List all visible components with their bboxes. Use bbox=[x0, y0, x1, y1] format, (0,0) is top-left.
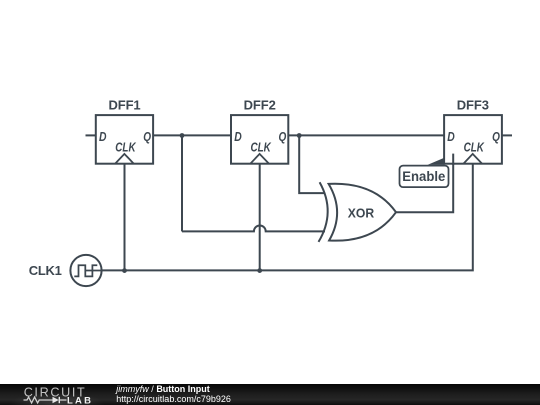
footer bar bbox=[0, 384, 540, 405]
svg-text:CLK: CLK bbox=[251, 140, 273, 155]
wire Q1 to D2 bbox=[153, 134, 231, 136]
svg-text:jimmyfw / Button Input: jimmyfw / Button Input bbox=[115, 384, 210, 394]
svg-text:XOR: XOR bbox=[348, 206, 375, 221]
flip-flop DFF3 bbox=[444, 98, 502, 164]
svg-text:LAB: LAB bbox=[67, 396, 93, 405]
xor gate U1 bbox=[319, 182, 397, 242]
flip-flop DFF1 bbox=[96, 98, 153, 164]
junction node B bbox=[297, 133, 302, 138]
footer title text bbox=[115, 384, 231, 404]
svg-text:D: D bbox=[234, 129, 242, 144]
svg-text:DFF3: DFF3 bbox=[457, 98, 489, 113]
svg-text:DFF1: DFF1 bbox=[108, 98, 140, 113]
wire D1 input stub bbox=[86, 134, 96, 136]
clock source CLK1 bbox=[29, 255, 102, 286]
svg-text:D: D bbox=[99, 129, 107, 144]
svg-text:CLK: CLK bbox=[115, 140, 137, 155]
wire DFF3 enable pin stub bbox=[452, 154, 454, 165]
svg-text:DFF2: DFF2 bbox=[244, 98, 276, 113]
svg-text:Q: Q bbox=[143, 129, 151, 144]
svg-text:Q: Q bbox=[492, 129, 500, 144]
junction clock at DFF2 bbox=[257, 268, 262, 273]
svg-text:D: D bbox=[447, 129, 455, 144]
svg-text:http://circuitlab.com/c79b926: http://circuitlab.com/c79b926 bbox=[116, 394, 231, 404]
wire XOR output to DFF3 enable pin bbox=[396, 164, 453, 212]
wire Q3 output stub bbox=[502, 134, 512, 136]
flip-flop DFF2 bbox=[231, 98, 288, 164]
wire Q2 to D3 bbox=[289, 134, 444, 136]
wire DFF2 clock vertical bbox=[259, 164, 261, 271]
wire clock bus bbox=[86, 164, 473, 271]
svg-text:Q: Q bbox=[279, 129, 287, 144]
wire XOR lower input horizontal with hop bbox=[182, 225, 325, 231]
svg-text:Enable: Enable bbox=[402, 168, 445, 184]
wire node A vertical to XOR lower input bbox=[181, 135, 183, 231]
svg-text:CLK1: CLK1 bbox=[29, 263, 62, 278]
svg-text:CLK: CLK bbox=[464, 140, 486, 155]
junction clock at DFF1 bbox=[122, 268, 127, 273]
junction node A bbox=[180, 133, 185, 138]
wire node B vertical to XOR upper input bbox=[299, 135, 325, 193]
wire DFF1 clock vertical bbox=[124, 164, 126, 271]
footer CircuitLab logo bbox=[9, 393, 105, 405]
flag Enable bbox=[400, 158, 449, 188]
